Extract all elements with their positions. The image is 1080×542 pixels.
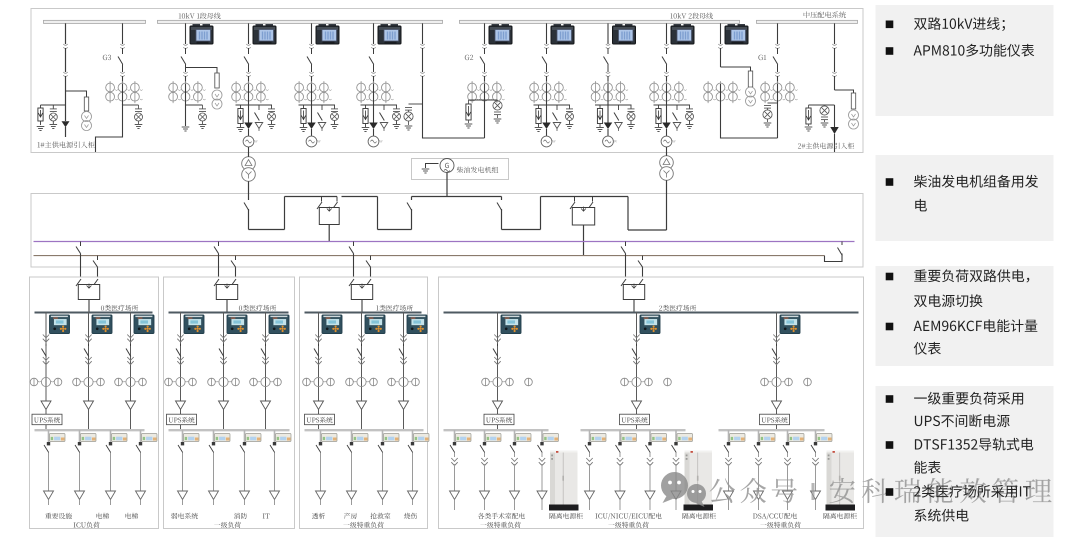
panel: 10kV medium-voltage switchgear outline box (31, 9, 863, 153)
G2 bottom tee (469, 99, 498, 101)
wire: tie bottom link (423, 104, 485, 138)
ct row: 0类医疗场所 feeder 1 (30, 377, 62, 386)
transfer switch ATS1 (317, 197, 339, 225)
label: load 抢救室 (371, 513, 391, 519)
wire: class-2 feeder 2 with AEM96 meter (632, 312, 660, 430)
wire: feeder 3 head (181, 23, 213, 84)
arrow: class-2 seg1 branch 1 load (450, 491, 460, 510)
wire: class-2 seg1 branch 1 din-rail meter (450, 430, 471, 491)
arrow: 1类医疗场所 feeder 1 UPS input (314, 401, 324, 415)
wire: feeder 9 to MV tie (721, 84, 778, 138)
wire: outgoing feeder 8 head (604, 23, 636, 84)
ct cluster: feeder 8 (591, 81, 628, 103)
bus: 0类医疗场所 UPS output bus (169, 429, 290, 431)
earthing switch: incoming 2 (830, 105, 839, 152)
wire: incoming feeder 2 head (832, 23, 836, 90)
label: load class ICU负荷 (74, 522, 100, 528)
surge arrester feeder G3 (123, 105, 143, 129)
ups: 1类医疗场所 UPS box (305, 414, 335, 425)
net: standby LV bus (brown) (34, 255, 825, 257)
ct row: 0类医疗场所 feeder 1 (165, 377, 197, 386)
wire: 0类医疗场所 feeder 2 with AEM96 meter (84, 312, 112, 430)
label: ICU/NICU/EICU配电 (595, 513, 661, 520)
ground: feeder 3 main (182, 105, 190, 131)
wire: G3 tie jog to left (96, 104, 123, 152)
wire: dual-supply drop to class-0 area 1 (76, 242, 98, 279)
wire: TR2 down (666, 180, 668, 196)
label: 1# main supply incoming cabinet (38, 141, 95, 148)
bus: 1类医疗场所 UPS output bus (305, 429, 424, 431)
wire: dual-supply drop to class-2 area (621, 242, 643, 279)
wire: feeder G1 head (758, 23, 779, 84)
generator G1 symbol (440, 159, 454, 173)
wire: 1类医疗场所 feeder 3 with AEM96 meter (399, 312, 427, 430)
wire: step bus top run 2 (342, 196, 378, 198)
wire: step bus riser 1 (284, 197, 286, 230)
arrow: 1类医疗场所 branch 3 load (378, 491, 388, 505)
wire: step bus breaker riser 4 (497, 197, 502, 230)
wire: 1类医疗场所 branch 3 din-rail meter (378, 430, 399, 491)
label: load 烧伤 (404, 513, 417, 519)
wire: G1 lower (777, 84, 779, 103)
wire: 0类医疗场所 branch 3 din-rail meter (106, 430, 127, 491)
wire: class-2 feeder 1 with AEM96 meter (493, 312, 521, 430)
bus: 0类医疗场所 section bus (169, 312, 289, 314)
label: load 透析 (312, 513, 325, 519)
sidebar note background 4 (876, 386, 1054, 537)
bus: class-2 UPS output bus 3 (719, 429, 825, 431)
wire: step bus riser 6 (627, 197, 629, 231)
arrow: class-2 seg2 branch 3 load (645, 491, 655, 510)
ct cluster: feeder 3 (169, 81, 206, 103)
wire: step bus top run 1 (285, 196, 338, 198)
pt branch: incoming 1 (66, 91, 92, 131)
label: load 重要设施 (45, 513, 72, 519)
arrow: 1类医疗场所 feeder 3 UPS input (399, 401, 409, 415)
label: 0类医疗场所 (239, 305, 276, 311)
ct cluster: feeder G3 (106, 81, 143, 103)
bus: 10kV bus 2 (460, 20, 740, 23)
ct row: 1类医疗场所 feeder 1 (303, 377, 335, 386)
arrow: 0类医疗场所 branch 1 load (178, 491, 188, 505)
label: class-2 load class 3 (760, 522, 800, 528)
sidebar note text 1 (886, 17, 1035, 57)
arrow: class-2 seg2 branch 1 load (585, 491, 595, 510)
wire: 0类医疗场所 feeder 2 with AEM96 meter (219, 312, 247, 430)
wire: 0类医疗场所 feeder 1 with AEM96 meter (176, 312, 204, 430)
arrester branch: G1 (763, 103, 778, 127)
wire: bus-tie feeder G3 (103, 23, 125, 84)
label: 10kV bus 1 (179, 13, 221, 19)
fuse F1 with ground (37, 105, 45, 131)
label: load class 一级特重负荷 (343, 522, 383, 528)
wire: 0类医疗场所 branch 2 din-rail meter (209, 430, 230, 491)
arrow: class-2 seg3 branch 4 load (811, 491, 821, 510)
wire: class-2 seg3 branch 3 din-rail meter (783, 430, 804, 491)
wire: 1类医疗场所 ATS output (361, 300, 363, 313)
wire: class-2 seg3 branch 1 din-rail meter (724, 430, 745, 491)
label: 1类医疗场所 (376, 305, 413, 311)
fuse + ground: G2 (465, 100, 473, 128)
wire: 1类医疗场所 branch 2 din-rail meter (347, 430, 368, 491)
ups: class-2 UPS box (760, 414, 790, 425)
arrow: 0类医疗场所 branch 2 load (75, 491, 85, 505)
sidebar note text 3 (886, 269, 1038, 354)
node: incoming 1 distribution tee (41, 104, 66, 106)
wire: transformer feeder T2 head (662, 23, 694, 84)
ct row: class-2 feeder 1 (482, 377, 514, 386)
sidebar note text 4 (886, 392, 1034, 522)
wire: TR1 to transfer bus (248, 181, 250, 197)
wire: outgoing feeder 6 head (369, 23, 401, 84)
ct cluster: feeder G1 (761, 81, 798, 103)
arrow: 0类医疗场所 feeder 1 UPS input (176, 401, 186, 415)
wire: class-2 seg2 branch 1 din-rail meter (585, 430, 606, 491)
wire: step bus breaker riser 3 (407, 197, 412, 230)
surge arrester with ground (49, 105, 57, 129)
ct row: 0类医疗场所 feeder 2 (73, 377, 105, 386)
wire: class-2 seg2 branch 4 din-rail meter (672, 430, 693, 491)
arrow: 0类医疗场所 feeder 3 UPS input (261, 401, 271, 415)
wire: 0类医疗场所 branch 2 din-rail meter (75, 430, 96, 491)
arrow: 1类医疗场所 branch 4 load (408, 491, 418, 505)
bus: class-2 section bus (444, 312, 859, 314)
panel: low-voltage distribution / transfer section outline box (31, 194, 863, 268)
label: load IT (263, 514, 270, 519)
wire: G2 down to tie (484, 100, 486, 138)
wire: ATS2 output to standby bus (583, 225, 585, 256)
arrow: class-2 seg1 branch 4 load (537, 491, 547, 510)
bus: class-2 UPS output bus 2 (581, 429, 686, 431)
label: 隔离电源柜 (824, 513, 857, 519)
transfer switch: 0类医疗场所 incoming ATS (214, 279, 238, 300)
label: load 产房 (344, 513, 357, 519)
label: load 弱电系统 (171, 513, 198, 519)
wire: generator feed (446, 173, 448, 197)
feeder T2 bottom cluster (654, 84, 694, 157)
wire: class-2 seg1 branch 2 din-rail meter (480, 430, 501, 491)
incoming 2 tee (809, 104, 835, 106)
label: 2# main supply incoming cabinet (798, 143, 854, 149)
wire: 0类医疗场所 ATS output (88, 300, 90, 313)
wire: 0类医疗场所 ATS output (226, 300, 228, 313)
label: 各类手术室配电 (478, 513, 525, 519)
watermark: text (710, 478, 1052, 503)
wire: step bus top run 3 (generator tap) (412, 196, 502, 198)
wire: 0类医疗场所 branch 3 din-rail meter (240, 430, 261, 491)
wire: step bus bottom run 2 (378, 229, 412, 231)
panel: medical area box (2类医疗场所) (439, 277, 864, 529)
ct cluster: feeder 7 (530, 81, 567, 103)
wire: G1 down (777, 103, 779, 138)
wire: step bus bottom run 1 (249, 229, 285, 231)
wire: dual-supply drop to class-0 area 2 (214, 242, 236, 279)
ct row: 1类医疗场所 feeder 3 (388, 377, 420, 386)
fuse + ground: incoming 2 (805, 105, 813, 131)
wire: 1类医疗场所 branch 4 din-rail meter (408, 430, 429, 491)
wire: outgoing feeder 5 head (307, 23, 339, 84)
wire: step bus riser 5 (540, 197, 542, 230)
ct cluster: feeder 9 (704, 81, 741, 103)
transformer TR1 (242, 157, 256, 182)
wire: class-2 seg2 branch 3 din-rail meter (646, 430, 667, 491)
arrow: class-2 feeder 2 UPS input (632, 401, 642, 415)
voltage transformer PT2 (835, 90, 859, 129)
wire: T2 link above (666, 152, 668, 156)
wire: 1类医疗场所 branch 1 din-rail meter (316, 430, 337, 491)
ct: class-2 feeder 3 extra winding (804, 378, 812, 386)
bus: class-2 UPS output bus 1 (444, 429, 549, 431)
label: 2类医疗场所 (659, 305, 696, 311)
arrester + ground: G2 (493, 100, 502, 123)
label: class-2 load class 1 (480, 522, 520, 528)
arrow: 0类医疗场所 feeder 2 UPS input (84, 401, 94, 415)
wire: dual-supply drop to class-1 area (349, 242, 371, 279)
watermark: wechat icon (661, 472, 706, 507)
wire: step bus bottom run 4 (628, 229, 667, 231)
label: load 电梯 (126, 513, 139, 519)
arrow: 0类医疗场所 branch 2 load (209, 491, 219, 505)
ct row: 0类医疗场所 feeder 3 (250, 377, 282, 386)
ct row: class-2 feeder 3 (761, 377, 793, 386)
wire: T1 link above (248, 152, 250, 157)
ct cluster: feeder 6 (357, 81, 394, 103)
sidebar note background 3 (876, 266, 1054, 366)
sidebar note background 1 (876, 5, 1054, 116)
wire: class-2 feeder 3 with AEM96 meter (772, 312, 800, 430)
wire: step bus bottom run 3 (502, 229, 541, 231)
wire: outgoing feeder 7 head (542, 23, 574, 84)
transfer switch ATS2 (570, 197, 595, 226)
wire: class-2 seg1 branch 4 din-rail meter (538, 430, 559, 491)
label: 隔离电源柜 (683, 513, 716, 519)
arrow: class-2 feeder 1 UPS input (493, 401, 503, 415)
feeder T1 bottom cluster (236, 84, 276, 157)
wire: 0类医疗场所 branch 1 din-rail meter (44, 430, 65, 491)
ct cluster: feeder T2 (650, 81, 687, 103)
arrow: 0类医疗场所 branch 1 load (44, 491, 54, 505)
sidebar note text 2 (886, 175, 1038, 212)
wire: incoming feeder 1 drop (63, 23, 67, 105)
feeder 5 bottom cluster (299, 84, 339, 147)
wire: step bus riser 2 (377, 197, 379, 230)
ct row: 1类医疗场所 feeder 2 (346, 377, 378, 386)
wire: class-2 seg1 branch 3 din-rail meter (510, 430, 531, 491)
diesel generator box (412, 159, 509, 180)
wire: feeder 3 lower (185, 84, 187, 105)
ct: class-2 feeder 2 extra winding (664, 378, 672, 386)
transfer switch: 0类医疗场所 incoming ATS (76, 279, 100, 300)
wire: step bus top run 5 (593, 196, 629, 198)
bus: 0类医疗场所 UPS output bus (35, 429, 145, 431)
wire: feeder 9 head (718, 23, 748, 67)
label: DSA/CCU配电 (753, 513, 797, 520)
label: medium voltage distribution system (804, 11, 846, 18)
label: load 消防 (234, 513, 247, 519)
arrester branch on tie (404, 104, 423, 130)
label: 0类医疗场所 (101, 305, 138, 311)
bus: 1类医疗场所 section bus (305, 312, 422, 314)
feeder 7 bottom cluster (534, 84, 574, 147)
ups: class-2 UPS box (484, 414, 514, 425)
ups: class-2 UPS box (620, 414, 650, 425)
ups: 0类医疗场所 UPS box (167, 414, 197, 425)
earthing switch: black triangle (62, 105, 70, 137)
arrow: 0类医疗场所 branch 3 load (106, 491, 116, 505)
feeder 6 bottom cluster (361, 84, 401, 147)
wire: 0类医疗场所 feeder 1 with AEM96 meter (42, 312, 70, 430)
ct row: class-2 feeder 2 (621, 377, 653, 386)
wire: feeder G2 head (465, 23, 512, 84)
transfer switch: 1类医疗场所 incoming ATS (349, 279, 373, 300)
arrow: class-2 feeder 3 UPS input (772, 401, 782, 415)
label: class-2 load class 2 (608, 522, 648, 528)
arrow: class-2 seg2 branch 4 load (671, 491, 681, 510)
wire: 1类医疗场所 feeder 2 with AEM96 meter (357, 312, 385, 430)
arrester + ground: incoming 2 (820, 105, 829, 127)
label: diesel generator set (457, 167, 499, 173)
wire: 0类医疗场所 feeder 3 with AEM96 meter (126, 312, 154, 430)
arrester + ground: feeder 3 (199, 105, 207, 129)
wire: standby-to-preferred right link (825, 242, 843, 262)
wire: step bus segment a (244, 197, 249, 230)
panel: medical area box (0类医疗场所) (30, 277, 159, 529)
feeder 3 bottom tee (186, 104, 203, 106)
wire: 1类医疗场所 feeder 1 with AEM96 meter (314, 312, 342, 430)
ct row: 0类医疗场所 feeder 3 (115, 377, 147, 386)
wire: class-2 seg2 branch 2 din-rail meter (616, 430, 637, 491)
arrow: 0类医疗场所 feeder 1 UPS input (41, 401, 51, 415)
wire: transformer feeder T1 head (244, 23, 276, 84)
label: 隔离电源柜 (550, 513, 583, 519)
generator ground (422, 164, 439, 174)
bus: 10kV bus 1 segment A (44, 20, 146, 23)
wire: class-2 seg3 branch 4 din-rail meter (811, 430, 832, 491)
transfer switch: class-2 incoming ATS (621, 279, 645, 300)
wire: bus-tie right leg (420, 23, 424, 104)
arrow: class-2 seg1 branch 2 load (480, 491, 490, 510)
wire: 0类医疗场所 branch 1 din-rail meter (178, 430, 199, 491)
wire: G3 lower section (122, 84, 124, 105)
cabinet: isolation power cabinet 2 (684, 451, 714, 511)
sidebar note background 2 (876, 155, 1054, 241)
arrow: 1类医疗场所 feeder 2 UPS input (357, 401, 367, 415)
wire: step bus top run 4 (541, 196, 593, 198)
arrow: class-2 seg2 branch 2 load (615, 491, 625, 510)
panel: medical area box (1类医疗场所) (300, 277, 428, 529)
wire: class-2 ATS output (633, 300, 635, 313)
arrow: 0类医疗场所 branch 4 load (270, 491, 280, 505)
panel: medical area box (0类医疗场所) (164, 277, 295, 529)
arrow: 0类医疗场所 feeder 2 UPS input (219, 401, 229, 415)
arrow: 1类医疗场所 branch 1 load (316, 491, 326, 505)
pt branch: feeder 3 (186, 68, 223, 110)
wire: class-2 seg3 branch 2 din-rail meter (754, 430, 775, 491)
ct: class-2 feeder 1 extra winding (525, 378, 533, 386)
bus: medium-voltage distribution bus (757, 20, 858, 23)
arrow: 0类医疗场所 branch 4 load (136, 491, 146, 505)
ct cluster: feeder G2 (468, 81, 505, 103)
wire: ATS1 output to preferred bus (328, 225, 330, 242)
wire: 0类医疗场所 branch 4 din-rail meter (136, 430, 157, 491)
arrow: class-2 seg3 branch 1 load (724, 491, 734, 510)
cabinet: isolation power cabinet 3 (826, 451, 856, 511)
arrow: class-2 seg3 branch 3 load (783, 491, 793, 510)
ct cluster: feeder T1 (232, 81, 269, 103)
feeder 8 bottom cluster (595, 84, 635, 147)
bus: 10kV bus 1 segment B (158, 20, 443, 23)
ups: 0类医疗场所 UPS box (32, 414, 62, 425)
cabinet: isolation power cabinet 1 (549, 451, 579, 511)
wire: G2 lower (484, 84, 486, 100)
label: load class 一级负荷 (214, 522, 241, 528)
ct row: 0类医疗场所 feeder 2 (208, 377, 240, 386)
label: load 电梯 (97, 513, 110, 519)
label: 10kV bus 2 (670, 13, 712, 19)
arrow: class-2 seg1 branch 3 load (510, 491, 520, 510)
ct cluster: feeder 5 (295, 81, 332, 103)
transformer TR2 (660, 156, 674, 181)
arrow: class-2 seg3 branch 2 load (754, 491, 764, 510)
wire: 0类医疗场所 feeder 3 with AEM96 meter (261, 312, 289, 430)
bus: 0类医疗场所 section bus (35, 312, 153, 314)
arrow: 0类医疗场所 branch 3 load (240, 491, 250, 505)
arrow: 0类医疗场所 feeder 3 UPS input (126, 401, 136, 415)
net: preferred LV bus (purple) (34, 241, 855, 243)
wire: 0类医疗场所 branch 4 din-rail meter (270, 430, 291, 491)
pt branch feeder 9 (721, 67, 756, 106)
arrow: 1类医疗场所 branch 2 load (347, 491, 357, 505)
wire: TR2 riser into step bus (666, 196, 668, 230)
